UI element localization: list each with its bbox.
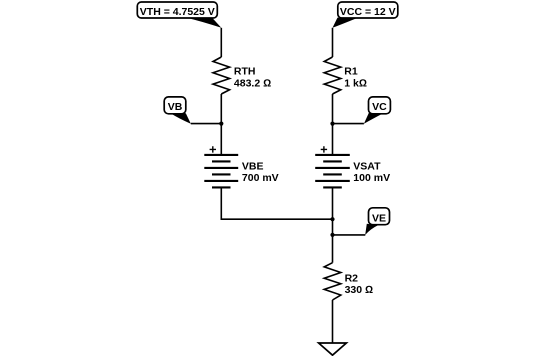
svg-text:VB: VB: [168, 101, 183, 113]
svg-text:RTH: RTH: [234, 66, 256, 78]
label RTH 483.2 ohm: [234, 66, 271, 90]
battery VBE: [204, 146, 238, 187]
junction dot VB: [219, 122, 223, 126]
svg-text:VCC = 12 V: VCC = 12 V: [340, 6, 396, 18]
label VSAT 100 mV: [353, 160, 390, 184]
wire R1 to VSAT battery: [332, 94, 334, 155]
voltage label VCC: [333, 2, 398, 28]
svg-text:100 mV: 100 mV: [353, 172, 390, 184]
battery VSAT: [315, 146, 350, 187]
wire left branch top (VTH tap to RTH): [220, 28, 222, 57]
wire R2 to ground: [332, 300, 334, 343]
svg-text:1 kΩ: 1 kΩ: [344, 78, 367, 90]
svg-text:330 Ω: 330 Ω: [345, 284, 374, 296]
wire VB tap: [191, 123, 222, 125]
svg-text:VBE: VBE: [242, 160, 264, 172]
svg-text:R1: R1: [344, 66, 358, 78]
svg-text:483.2 Ω: 483.2 Ω: [234, 78, 271, 90]
ground: [319, 343, 347, 355]
resistor RTH: [213, 57, 230, 94]
wire VC tap: [333, 123, 364, 125]
wire VBE bottom to joining corner: [221, 187, 332, 219]
label VBE 700 mV: [242, 160, 279, 184]
junction dot VE: [330, 233, 334, 237]
label R2 330 ohm: [345, 273, 374, 297]
junction dot VC: [330, 122, 334, 126]
node VC flag: [364, 97, 391, 124]
node VE flag: [365, 208, 389, 235]
resistor R2: [324, 263, 341, 300]
label R1 1 kohm: [344, 66, 367, 90]
junction dot join: [330, 217, 334, 221]
svg-text:700 mV: 700 mV: [242, 172, 279, 184]
svg-text:R2: R2: [345, 273, 359, 285]
voltage label VTH: [137, 2, 221, 28]
svg-text:VE: VE: [372, 212, 386, 224]
wire RTH to VBE battery: [220, 94, 222, 155]
wire VE tap: [333, 234, 366, 236]
svg-text:VTH = 4.7525 V: VTH = 4.7525 V: [140, 6, 215, 18]
svg-text:VSAT: VSAT: [353, 160, 381, 172]
svg-text:VC: VC: [372, 101, 387, 113]
resistor R1: [324, 57, 341, 94]
wire VSAT bottom through junctions to R2: [332, 187, 334, 262]
wire right branch top (VCC tap to R1): [332, 28, 334, 57]
node VB flag: [164, 97, 191, 124]
